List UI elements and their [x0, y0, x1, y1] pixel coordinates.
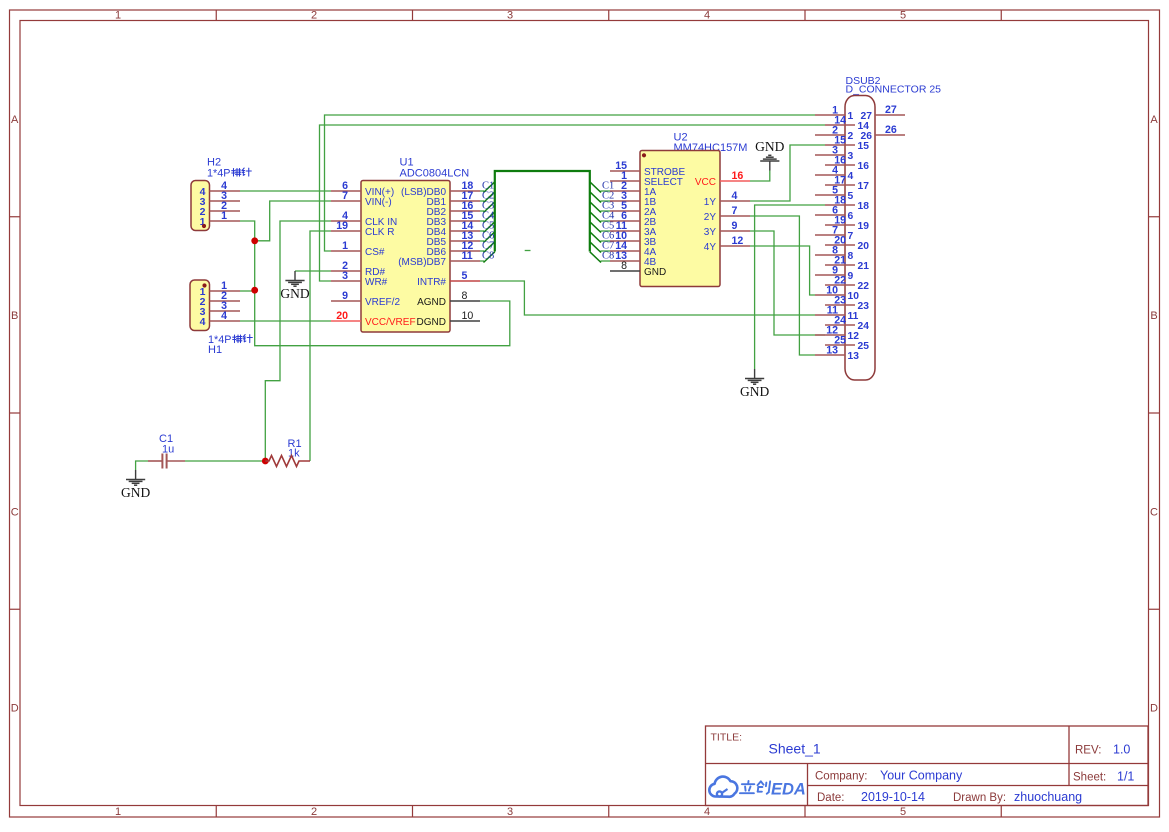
wire U1 VIN(-) branch — [255, 201, 331, 241]
bus entry C4 left — [480, 220, 484, 222]
svg-text:B: B — [1150, 310, 1157, 322]
wire H2 pin4 to U1 VIN(+) — [240, 190, 331, 192]
svg-text:3: 3 — [507, 806, 513, 818]
svg-text:1: 1 — [115, 9, 121, 21]
svg-text:4: 4 — [200, 316, 206, 328]
svg-text:3: 3 — [342, 270, 348, 282]
svg-text:A: A — [11, 114, 19, 126]
wire VCC/VREF to H1 pin4 — [240, 320, 331, 322]
svg-text:C: C — [1150, 507, 1158, 519]
svg-text:9: 9 — [732, 220, 738, 232]
bus DB0-DB7 — [495, 171, 590, 252]
svg-text:18: 18 — [858, 201, 870, 212]
svg-text:2: 2 — [311, 9, 317, 21]
connector DSUB2 D_CONNECTOR 25 — [815, 75, 941, 380]
wire 2Y to DSUB pin13 — [750, 216, 815, 355]
svg-text:INTR#: INTR# — [417, 277, 446, 288]
svg-text:7: 7 — [848, 231, 854, 242]
bus entry C3 left — [480, 210, 484, 212]
svg-text:Sheet:: Sheet: — [1073, 772, 1106, 784]
connector H1 1*4P header — [190, 280, 252, 356]
svg-text:19: 19 — [858, 221, 870, 232]
wire net H2.1 / H1.1 / AGND — [240, 221, 510, 346]
svg-text:4: 4 — [704, 9, 710, 21]
svg-text:C8: C8 — [602, 251, 614, 262]
svg-text:3Y: 3Y — [704, 227, 717, 238]
svg-text:GND: GND — [644, 267, 666, 278]
svg-text:2: 2 — [848, 131, 854, 142]
svg-text:15: 15 — [858, 141, 870, 152]
svg-text:8: 8 — [462, 290, 468, 302]
svg-text:1/1: 1/1 — [1117, 770, 1134, 784]
svg-text:(MSB)DB7: (MSB)DB7 — [398, 257, 446, 268]
svg-text:1*4P: 1*4P — [207, 168, 230, 180]
wire DSUB pin18 to GND — [755, 205, 825, 369]
svg-text:1u: 1u — [162, 444, 174, 456]
svg-text:1.0: 1.0 — [1113, 743, 1130, 757]
svg-text:2Y: 2Y — [704, 212, 717, 223]
svg-text:3: 3 — [507, 9, 513, 21]
resistor R1 1k — [265, 438, 310, 467]
bus entry C4 right — [601, 220, 611, 222]
svg-text:AGND: AGND — [417, 297, 446, 308]
bus entry C6 right — [601, 240, 611, 242]
wire C1 left to GND — [136, 461, 148, 470]
svg-text:9: 9 — [342, 290, 348, 302]
svg-text:CS#: CS# — [365, 247, 385, 258]
wire CLK R to R1 right — [310, 231, 331, 461]
bus entry C8 right — [601, 260, 611, 262]
svg-text:3: 3 — [848, 151, 854, 162]
svg-text:1: 1 — [221, 210, 227, 222]
wire U2 VCC to GND flag — [750, 171, 770, 182]
svg-text:17: 17 — [858, 181, 870, 192]
svg-text:D: D — [11, 703, 19, 715]
svg-text:REV:: REV: — [1075, 745, 1101, 757]
bus entry C5 right — [601, 230, 611, 232]
svg-text:27: 27 — [861, 111, 873, 122]
svg-text:GND: GND — [740, 384, 769, 399]
svg-text:DGND: DGND — [417, 317, 446, 328]
svg-text:A: A — [1150, 114, 1158, 126]
svg-text:5: 5 — [900, 806, 906, 818]
svg-text:12: 12 — [732, 235, 744, 247]
svg-text:4: 4 — [848, 171, 854, 182]
bus entry C1 right — [601, 190, 611, 192]
capacitor C1 1u — [148, 433, 185, 469]
DSUB pin 27 — [875, 114, 905, 116]
svg-text:5: 5 — [462, 270, 468, 282]
ground at DSUB pin18 net — [754, 369, 756, 379]
svg-text:8: 8 — [848, 251, 854, 262]
svg-text:13: 13 — [826, 345, 838, 357]
svg-text:Your Company: Your Company — [880, 769, 963, 783]
ground at U2 VCC (flipped) — [769, 161, 771, 171]
junction node C (265,461) — [262, 458, 269, 465]
svg-text:8: 8 — [621, 260, 627, 272]
svg-text:GND: GND — [755, 139, 784, 154]
svg-text:5: 5 — [848, 191, 854, 202]
svg-text:B: B — [11, 310, 18, 322]
svg-text:11: 11 — [462, 250, 473, 262]
svg-text:VIN(-): VIN(-) — [365, 197, 392, 208]
wire 4Y to DSUB pin10 — [750, 246, 815, 295]
svg-text:22: 22 — [858, 281, 870, 292]
wire INTR# to DSUB pin11 — [480, 281, 815, 315]
bus entry C6 left — [480, 240, 484, 242]
svg-text:GND: GND — [121, 485, 150, 500]
ground at C1 — [135, 470, 137, 480]
wire CLK IN to R1 left node — [265, 221, 331, 461]
svg-text:VCC: VCC — [695, 177, 716, 188]
svg-text:20: 20 — [858, 241, 870, 252]
svg-text:21: 21 — [858, 261, 870, 272]
svg-text:16: 16 — [732, 170, 744, 182]
svg-text:19: 19 — [336, 220, 348, 232]
bus entry C7 right — [601, 250, 611, 252]
svg-text:C: C — [11, 507, 19, 519]
svg-text:4: 4 — [704, 806, 710, 818]
wire H1 pin1 stub join — [240, 290, 255, 292]
svg-text:GND: GND — [280, 286, 309, 301]
svg-text:13: 13 — [848, 351, 860, 362]
svg-text:26: 26 — [885, 124, 897, 136]
svg-text:D_CONNECTOR 25: D_CONNECTOR 25 — [846, 84, 942, 96]
svg-text:16: 16 — [858, 161, 870, 172]
svg-text:25: 25 — [858, 341, 870, 352]
svg-text:27: 27 — [885, 104, 897, 116]
svg-text:4: 4 — [732, 190, 738, 202]
svg-text:C8: C8 — [482, 251, 494, 262]
IC U2 MM74HC157M — [610, 132, 750, 287]
bus entry C7 left — [480, 250, 484, 252]
wire WR# to DSUB pin14 — [320, 125, 826, 281]
svg-text:CLK R: CLK R — [365, 227, 394, 238]
title block texts — [711, 732, 1135, 805]
svg-text:zhuochuang: zhuochuang — [1014, 790, 1082, 804]
stray wire dash — [525, 250, 531, 252]
svg-text:23: 23 — [858, 301, 870, 312]
svg-text:4: 4 — [221, 310, 227, 322]
svg-text:7: 7 — [342, 190, 348, 202]
wire C1 to node — [185, 460, 265, 462]
svg-text:Company:: Company: — [815, 771, 867, 783]
bus entry C8 left — [480, 260, 484, 262]
svg-text:2: 2 — [311, 806, 317, 818]
svg-text:10: 10 — [462, 310, 474, 322]
title block — [706, 726, 1149, 806]
bus entry C3 right — [601, 210, 611, 212]
svg-text:Date:: Date: — [817, 792, 845, 804]
svg-text:TITLE:: TITLE: — [711, 732, 743, 744]
svg-text:Sheet_1: Sheet_1 — [769, 741, 821, 757]
svg-text:1: 1 — [848, 111, 854, 122]
IC U1 ADC0804LCN — [331, 157, 480, 333]
svg-text:2019-10-14: 2019-10-14 — [861, 790, 925, 804]
svg-text:5: 5 — [900, 9, 906, 21]
svg-text:H1: H1 — [208, 344, 222, 356]
svg-text:1: 1 — [342, 240, 348, 252]
svg-text:WR#: WR# — [365, 277, 388, 288]
junction node B (255,290) — [251, 287, 258, 294]
wire RD# to GND — [295, 270, 331, 272]
bus entry C2 right — [601, 200, 611, 202]
logo 立创EDA — [709, 777, 806, 799]
svg-text:ADC0804LCN: ADC0804LCN — [400, 168, 470, 180]
wire 1Y to DSUB pin15 — [750, 145, 825, 201]
svg-text:4Y: 4Y — [704, 242, 717, 253]
wire 3Y to DSUB pin12 — [750, 231, 825, 335]
svg-text:26: 26 — [861, 131, 873, 142]
svg-text:1: 1 — [115, 806, 121, 818]
wire CS# to DSUB pin1 — [325, 115, 816, 251]
bus entry C2 left — [480, 200, 484, 202]
svg-text:6: 6 — [848, 211, 854, 222]
svg-text:D: D — [1150, 703, 1158, 715]
svg-text:7: 7 — [732, 205, 738, 217]
bus entry C1 left — [480, 190, 484, 192]
svg-text:20: 20 — [336, 310, 348, 322]
junction node A (255,241) — [251, 237, 258, 244]
svg-text:VCC/VREF: VCC/VREF — [365, 317, 416, 328]
connector H2 1*4P header — [191, 157, 251, 231]
svg-text:Drawn By:: Drawn By: — [953, 792, 1006, 804]
DSUB pin 26 — [875, 134, 905, 136]
ground at RD# — [294, 271, 296, 281]
svg-text:EDA: EDA — [771, 781, 806, 799]
svg-text:9: 9 — [848, 271, 854, 282]
bus entry C5 left — [480, 230, 484, 232]
svg-text:24: 24 — [858, 321, 870, 332]
svg-text:1Y: 1Y — [704, 197, 717, 208]
svg-text:VREF/2: VREF/2 — [365, 297, 400, 308]
